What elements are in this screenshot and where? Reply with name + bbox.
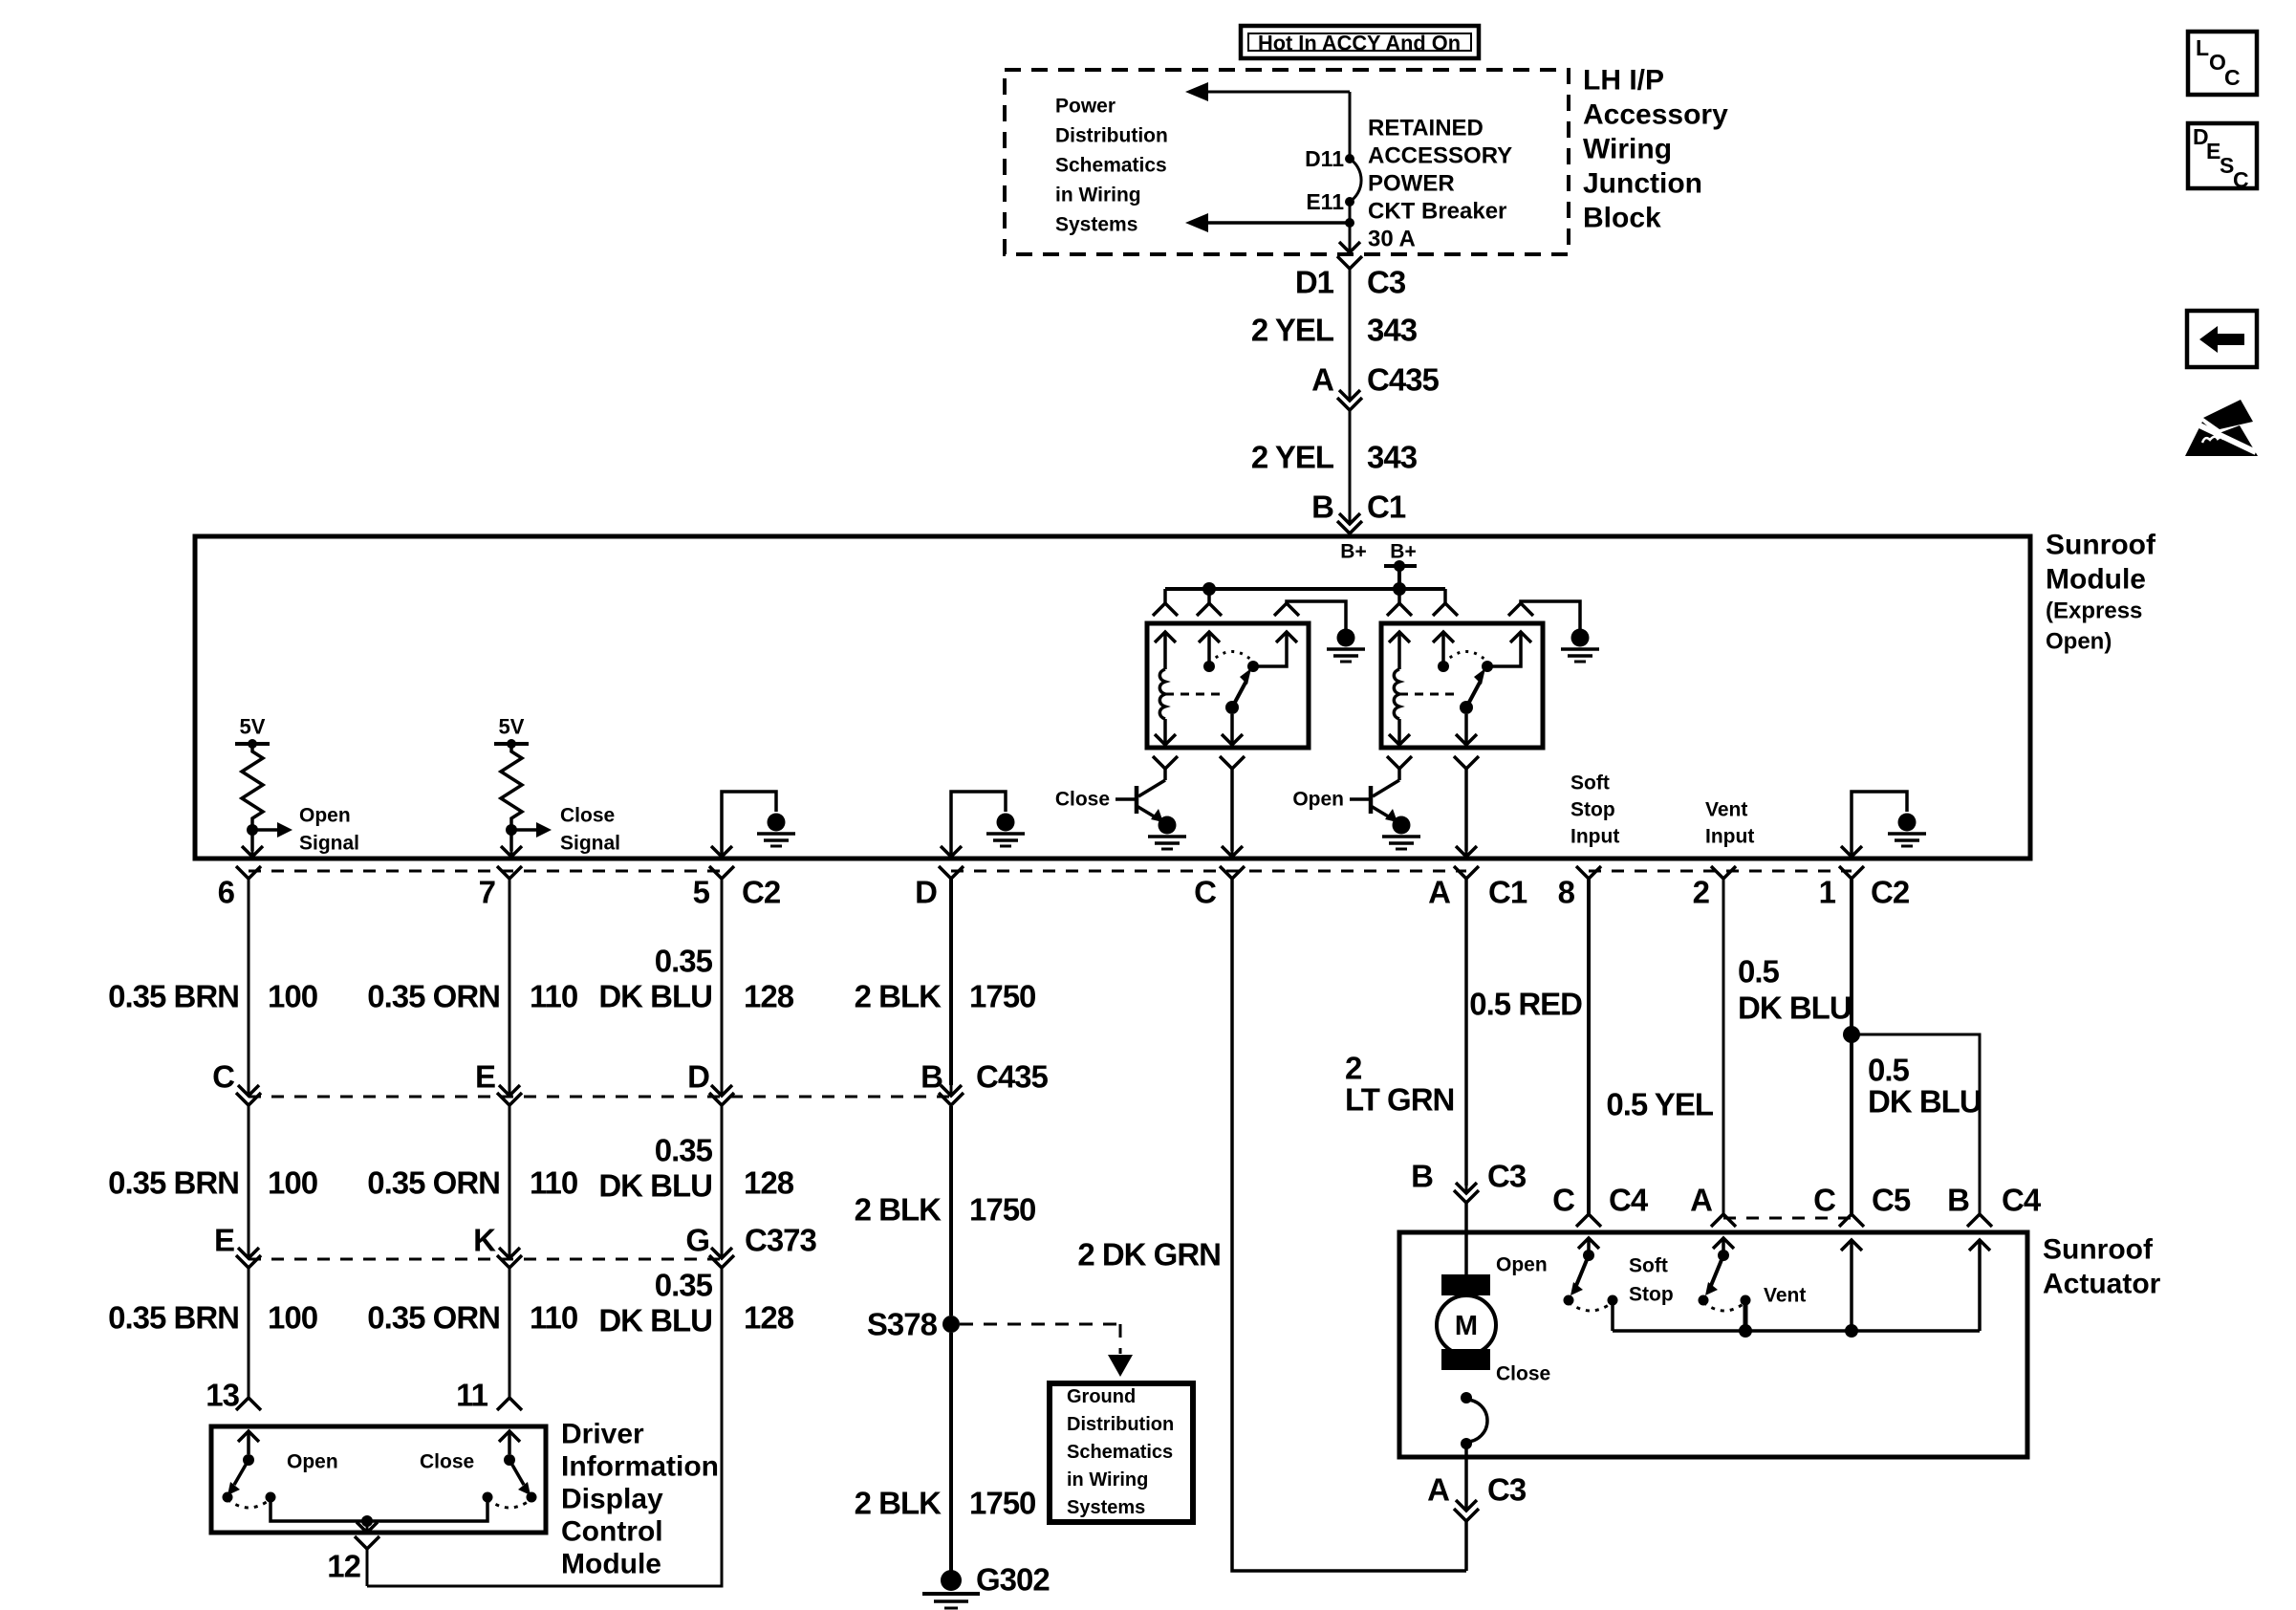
svg-text:Information: Information xyxy=(561,1451,719,1483)
svg-text:Close: Close xyxy=(1496,1363,1550,1385)
svg-text:110: 110 xyxy=(530,979,577,1014)
dashed arc: DID open xyxy=(227,1499,271,1508)
svg-text:C: C xyxy=(1194,875,1216,910)
svg-text:2 DK GRN: 2 DK GRN xyxy=(1077,1237,1221,1273)
dashed reference to ground distribution xyxy=(960,1323,1120,1326)
svg-text:Vent: Vent xyxy=(1705,799,1747,821)
power feed label box: Hot In ACCY And On xyxy=(1241,26,1479,58)
svg-text:M: M xyxy=(1455,1311,1478,1341)
svg-text:B+: B+ xyxy=(1390,541,1416,563)
svg-text:7: 7 xyxy=(479,875,495,910)
wire 2 LT GRN (pin A to C3) xyxy=(1464,879,1468,1186)
wire: DID switch common bus xyxy=(271,1497,487,1521)
wire: motor exit to pin A C3 xyxy=(1456,1500,1477,1511)
connector C1 pin B into Sunroof Module xyxy=(1339,513,1360,524)
svg-text:C4: C4 xyxy=(2002,1183,2042,1218)
svg-text:Ground: Ground xyxy=(1067,1386,1136,1407)
wire: C3 to sunroof actuator motor xyxy=(1464,1203,1468,1276)
svg-text:Input: Input xyxy=(1570,826,1619,848)
wire 100 0.35 BRN (seg 1) xyxy=(248,879,250,1085)
wire 1750 2 BLK (seg 3) xyxy=(949,1333,953,1573)
svg-text:Open: Open xyxy=(1292,789,1344,811)
svg-text:Wiring: Wiring xyxy=(1583,134,1672,165)
wire 0.5 RED (pin 8) xyxy=(1587,879,1591,1214)
svg-text:Schematics: Schematics xyxy=(1067,1442,1173,1463)
svg-text:128: 128 xyxy=(744,979,794,1014)
actuator pin C C4 xyxy=(1576,1214,1601,1227)
svg-text:Input: Input xyxy=(1705,826,1754,848)
svg-text:D: D xyxy=(915,875,937,910)
svg-text:Systems: Systems xyxy=(1055,214,1137,236)
ground: pin D loop xyxy=(997,814,1015,832)
resistor: 5V pull-up close signal xyxy=(494,715,620,858)
svg-text:C1: C1 xyxy=(1488,875,1527,910)
svg-text:5: 5 xyxy=(693,875,710,910)
svg-text:C3: C3 xyxy=(1487,1472,1527,1508)
contact dots: DID close xyxy=(483,1492,493,1503)
in-line connector C435 pin A xyxy=(1339,390,1360,401)
svg-text:Module: Module xyxy=(561,1549,661,1580)
wire 0.5 YEL (pin 2) xyxy=(1722,879,1725,1214)
svg-text:A: A xyxy=(1690,1183,1712,1218)
svg-text:D11: D11 xyxy=(1305,146,1344,171)
svg-text:11: 11 xyxy=(456,1378,488,1413)
svg-text:1: 1 xyxy=(1819,875,1836,910)
svg-text:E: E xyxy=(214,1223,234,1258)
DID pin 12 xyxy=(355,1536,379,1549)
connector dashed line C2 (pins 6,7,5) xyxy=(249,870,722,873)
wire: C5 riser xyxy=(1841,1240,1862,1251)
svg-text:B+: B+ xyxy=(1340,541,1366,563)
svg-text:Signal: Signal xyxy=(299,833,359,855)
svg-text:128: 128 xyxy=(744,1300,794,1336)
connector dashed line C2 (pins 8,2,1) xyxy=(1589,870,1852,873)
svg-text:DK BLU: DK BLU xyxy=(1868,1084,1982,1120)
svg-text:8: 8 xyxy=(1558,875,1575,910)
fork: K1 coil to Q1 collector xyxy=(1153,756,1178,769)
note box: Ground Distribution Schematics in Wiring Systems xyxy=(1050,1383,1193,1522)
svg-text:C1: C1 xyxy=(1367,490,1406,525)
svg-text:Signal: Signal xyxy=(560,833,620,855)
svg-text:Open: Open xyxy=(299,805,351,827)
svg-text:0.5 YEL: 0.5 YEL xyxy=(1606,1087,1713,1122)
svg-text:in Wiring: in Wiring xyxy=(1055,185,1141,207)
svg-text:A: A xyxy=(1311,362,1333,398)
svg-text:0.5 RED: 0.5 RED xyxy=(1469,987,1582,1022)
wire: feed to power distribution (upper arrow) xyxy=(1201,91,1350,94)
icon: back arrow box xyxy=(2187,311,2257,367)
terminal fork: relay K2 coil supply xyxy=(1397,589,1401,603)
svg-text:E11: E11 xyxy=(1306,189,1344,214)
in-line connector C435 pin D xyxy=(711,1085,732,1096)
svg-text:B: B xyxy=(1311,490,1333,525)
svg-text:110: 110 xyxy=(530,1165,577,1201)
svg-text:LT GRN: LT GRN xyxy=(1345,1082,1454,1118)
svg-text:C435: C435 xyxy=(976,1059,1049,1095)
contact dots: DID open xyxy=(223,1492,233,1503)
svg-text:G: G xyxy=(685,1223,709,1258)
icon: LOC box xyxy=(2188,32,2257,95)
svg-text:2 BLK: 2 BLK xyxy=(855,979,942,1014)
svg-text:0.35 ORN: 0.35 ORN xyxy=(367,979,500,1014)
svg-text:Close: Close xyxy=(1055,789,1110,811)
relay K2 (open) xyxy=(1381,623,1543,748)
svg-text:Control: Control xyxy=(561,1516,663,1548)
svg-text:Close: Close xyxy=(560,805,615,827)
terminal fork: relay K1 coil supply xyxy=(1163,589,1167,603)
svg-text:DK BLU: DK BLU xyxy=(598,1168,712,1204)
svg-text:DK BLU: DK BLU xyxy=(1738,990,1852,1026)
icon: ESD warning symbol xyxy=(2185,422,2258,456)
connector dashed line C1 (pins D,C,A) xyxy=(951,870,1466,873)
svg-text:C4: C4 xyxy=(1609,1183,1649,1218)
wire 110 0.35 ORN (seg 1) xyxy=(509,879,511,1085)
svg-text:Junction: Junction xyxy=(1583,168,1702,200)
svg-text:2: 2 xyxy=(1345,1051,1362,1086)
svg-text:D: D xyxy=(687,1059,709,1095)
wire 110 0.35 ORN (seg 2) xyxy=(509,1106,511,1248)
svg-text:Open): Open) xyxy=(2046,629,2112,655)
svg-text:0.35 BRN: 0.35 BRN xyxy=(108,1300,239,1336)
wire: actuator common bus xyxy=(1613,1329,1980,1333)
wire: B+ trunk to relay bus xyxy=(1397,566,1401,589)
svg-text:2 BLK: 2 BLK xyxy=(855,1192,942,1228)
svg-text:1750: 1750 xyxy=(969,1486,1035,1521)
transistor Q2 open driver xyxy=(1373,780,1399,796)
svg-text:Actuator: Actuator xyxy=(2043,1269,2161,1300)
wire: E11 down to junction xyxy=(1349,202,1352,223)
wire 128 0.35 DK BLU (seg 1) xyxy=(721,879,724,1085)
svg-text:Sunroof: Sunroof xyxy=(2043,1234,2154,1266)
svg-text:2 YEL: 2 YEL xyxy=(1251,313,1334,348)
svg-text:0.35 ORN: 0.35 ORN xyxy=(367,1165,500,1201)
svg-text:2: 2 xyxy=(1693,875,1710,910)
svg-text:L: L xyxy=(2196,35,2209,60)
svg-text:Schematics: Schematics xyxy=(1055,155,1167,177)
in-line connector C3 pin B xyxy=(1456,1183,1477,1193)
svg-text:DK BLU: DK BLU xyxy=(598,979,712,1014)
svg-text:Distribution: Distribution xyxy=(1067,1414,1174,1435)
svg-text:0.5: 0.5 xyxy=(1738,954,1780,990)
svg-text:A: A xyxy=(1428,875,1450,910)
svg-text:Hot In ACCY And On: Hot In ACCY And On xyxy=(1258,32,1461,55)
svg-text:Open: Open xyxy=(1496,1254,1548,1276)
wire: vertical trunk from feed xyxy=(1349,92,1352,159)
svg-text:12: 12 xyxy=(327,1549,360,1584)
switch: soft stop xyxy=(1564,1238,1618,1311)
svg-text:B: B xyxy=(1411,1159,1433,1194)
wire: pin D internal ground loop xyxy=(951,792,1006,854)
wire: B C4 riser xyxy=(1969,1240,1990,1251)
resistor: 5V pull-up open signal xyxy=(235,715,359,858)
svg-text:Systems: Systems xyxy=(1067,1497,1145,1518)
wire 2 DK GRN pin C to actuator xyxy=(1232,879,1466,1571)
svg-text:0.35: 0.35 xyxy=(655,1133,713,1168)
svg-text:ACCESSORY: ACCESSORY xyxy=(1368,143,1512,169)
svg-text:1750: 1750 xyxy=(969,979,1035,1014)
svg-text:C: C xyxy=(2233,167,2249,192)
svg-text:1750: 1750 xyxy=(969,1192,1035,1228)
connector dashed line C5 (pins A,C) xyxy=(1723,1217,1852,1220)
dashed arc: DID close xyxy=(487,1499,531,1508)
splice node on DK BLU xyxy=(1843,1026,1860,1043)
svg-text:Distribution: Distribution xyxy=(1055,125,1168,147)
svg-text:C3: C3 xyxy=(1367,265,1406,300)
svg-text:0.35 BRN: 0.35 BRN xyxy=(108,979,239,1014)
svg-text:C: C xyxy=(2224,65,2241,90)
pin 1 C2 xyxy=(1839,866,1864,879)
svg-text:C373: C373 xyxy=(745,1223,817,1258)
in-line connector C373 pin K xyxy=(499,1248,520,1258)
svg-text:Close: Close xyxy=(420,1451,474,1473)
svg-text:Accessory: Accessory xyxy=(1583,99,1728,131)
svg-text:C2: C2 xyxy=(742,875,781,910)
terminal fork: relay K1 common supply xyxy=(1207,589,1211,603)
wire: trunk exits junction block xyxy=(1349,223,1352,245)
svg-text:13: 13 xyxy=(206,1378,239,1413)
wire 1750 2 BLK (seg 2) xyxy=(949,1106,953,1316)
svg-text:0.35 ORN: 0.35 ORN xyxy=(367,1300,500,1336)
splice S378 xyxy=(942,1316,960,1333)
svg-text:C: C xyxy=(212,1059,234,1095)
svg-text:343: 343 xyxy=(1367,313,1418,348)
svg-text:A: A xyxy=(1427,1472,1449,1508)
wire 343 2 YEL (lower) xyxy=(1349,410,1352,516)
pin 5 C2 xyxy=(709,866,734,879)
DID pin 11 xyxy=(497,1398,522,1410)
svg-text:Block: Block xyxy=(1583,203,1661,234)
in-line connector C373 pin G xyxy=(711,1248,732,1258)
svg-text:C: C xyxy=(1552,1183,1574,1218)
relay K1 (close) xyxy=(1147,623,1309,748)
ground: Q2 emitter xyxy=(1393,816,1411,835)
wire 128 0.35 DK BLU (seg 3) xyxy=(367,1269,722,1586)
svg-text:Stop: Stop xyxy=(1570,799,1615,821)
pin D xyxy=(939,866,964,879)
LH I/P Accessory Wiring Junction Block (dashed box) xyxy=(1005,70,1569,254)
svg-text:RETAINED: RETAINED xyxy=(1368,116,1484,141)
svg-text:100: 100 xyxy=(268,1300,317,1336)
wire 1750 2 BLK (seg 1) xyxy=(949,879,953,1085)
ground: Q1 emitter xyxy=(1159,816,1177,835)
icon: DESC box xyxy=(2188,123,2257,188)
svg-text:B: B xyxy=(921,1059,942,1095)
svg-text:0.5: 0.5 xyxy=(1868,1053,1910,1088)
wire: relay K2 NC contact to ground xyxy=(1508,603,1533,616)
connector C3 pin D1 (fork below junction block) xyxy=(1337,256,1362,269)
wire: relay K1 NC contact to ground xyxy=(1274,603,1299,616)
svg-text:Stop: Stop xyxy=(1629,1284,1674,1306)
svg-text:100: 100 xyxy=(268,1165,317,1201)
Sunroof Module box xyxy=(195,536,2030,859)
actuator pin B C4 xyxy=(1967,1214,1992,1227)
switch: vent xyxy=(1699,1238,1751,1311)
Driver Information Display Control Module box xyxy=(211,1426,546,1533)
wire 0.5 DK BLU branch xyxy=(1852,1034,1980,1214)
switch: DID open xyxy=(227,1431,259,1495)
switch: motor close contact xyxy=(1461,1392,1472,1403)
wire 110 0.35 ORN (seg 3) xyxy=(509,1269,511,1398)
svg-text:LH I/P: LH I/P xyxy=(1583,65,1664,97)
svg-text:CKT Breaker: CKT Breaker xyxy=(1368,199,1506,225)
svg-text:Driver: Driver xyxy=(561,1419,644,1450)
pin 2 xyxy=(1711,866,1736,879)
in-line connector C435 pin E xyxy=(499,1085,520,1096)
in-line connector C373 pin E xyxy=(238,1248,259,1258)
wire 0.5 DK BLU (pin 1) xyxy=(1850,879,1853,1214)
svg-text:in Wiring: in Wiring xyxy=(1067,1469,1148,1490)
svg-text:D1: D1 xyxy=(1295,265,1334,300)
svg-text:128: 128 xyxy=(744,1165,794,1201)
svg-text:Vent: Vent xyxy=(1764,1285,1806,1307)
wire: K2 common to pin A xyxy=(1454,756,1479,769)
svg-text:C5: C5 xyxy=(1872,1183,1911,1218)
terminal D11 xyxy=(1345,154,1354,163)
svg-text:DK BLU: DK BLU xyxy=(598,1303,712,1338)
svg-text:E: E xyxy=(475,1059,495,1095)
switch: DID close xyxy=(499,1431,531,1495)
terminal E11 xyxy=(1345,197,1354,207)
in-line connector C435 pin C xyxy=(238,1085,259,1096)
ground G302 xyxy=(941,1570,962,1591)
ground: relay K1 NC xyxy=(1337,629,1355,647)
svg-text:2 BLK: 2 BLK xyxy=(855,1486,942,1521)
pin 6 xyxy=(236,866,261,879)
pin 8 xyxy=(1576,866,1601,879)
svg-text:POWER: POWER xyxy=(1368,171,1455,197)
svg-text:K: K xyxy=(473,1223,496,1258)
svg-text:110: 110 xyxy=(530,1300,577,1336)
svg-text:B: B xyxy=(1947,1183,1969,1218)
in-line connector C435 pin B xyxy=(941,1085,962,1096)
wire 100 0.35 BRN (seg 3) xyxy=(248,1269,250,1398)
pin 7 xyxy=(497,866,522,879)
wire: feed to power distribution (lower arrow) xyxy=(1201,221,1350,225)
wire: DID pin 12 exit xyxy=(365,1521,369,1526)
svg-text:6: 6 xyxy=(218,875,235,910)
connector C3 pin A (below actuator) xyxy=(1454,1509,1479,1521)
svg-text:S378: S378 xyxy=(867,1307,938,1342)
svg-text:Power: Power xyxy=(1055,96,1116,118)
wire: K1 common to pin C xyxy=(1220,756,1245,769)
actuator pin C C5 xyxy=(1839,1214,1864,1227)
ground: pin 5 loop xyxy=(768,814,786,832)
svg-text:Soft: Soft xyxy=(1570,772,1610,794)
svg-text:(Express: (Express xyxy=(2046,598,2142,624)
DID pin 13 xyxy=(236,1398,261,1410)
wire 100 0.35 BRN (seg 2) xyxy=(248,1106,250,1248)
circuit breaker: RETAINED ACCESSORY POWER CKT Breaker 30 A xyxy=(1350,159,1361,202)
wire: pin 1 internal ground loop xyxy=(1852,792,1907,854)
wire 343 2 YEL (upper) xyxy=(1349,269,1352,393)
svg-text:0.35 BRN: 0.35 BRN xyxy=(108,1165,239,1201)
wire 128 0.35 DK BLU (seg 2) xyxy=(721,1106,724,1248)
actuator pin A xyxy=(1711,1214,1736,1227)
ground: relay K2 NC xyxy=(1571,629,1590,647)
svg-text:343: 343 xyxy=(1367,440,1418,475)
svg-text:C2: C2 xyxy=(1871,875,1910,910)
svg-text:0.35: 0.35 xyxy=(655,1268,713,1303)
connector dashed line C373 row xyxy=(249,1258,722,1261)
svg-text:30 A: 30 A xyxy=(1368,227,1416,252)
svg-text:Soft: Soft xyxy=(1629,1255,1668,1277)
svg-text:C: C xyxy=(1813,1183,1835,1218)
ground: pin 1 loop xyxy=(1898,814,1917,832)
Sunroof Actuator box xyxy=(1399,1232,2027,1457)
wire: pin 5 internal ground loop xyxy=(722,792,776,854)
svg-text:G302: G302 xyxy=(976,1562,1050,1598)
fork: K2 coil to Q2 collector xyxy=(1387,756,1412,769)
wire: relay supply bus xyxy=(1165,587,1445,591)
svg-text:0.35: 0.35 xyxy=(655,944,713,979)
connector dashed line C435 row xyxy=(249,1096,951,1099)
svg-text:Sunroof: Sunroof xyxy=(2046,530,2156,561)
motor M sunroof xyxy=(1441,1274,1490,1295)
svg-text:Open: Open xyxy=(287,1451,338,1473)
svg-text:5V: 5V xyxy=(240,715,266,739)
svg-text:100: 100 xyxy=(268,979,317,1014)
svg-text:Module: Module xyxy=(2046,564,2146,596)
terminal fork: relay K2 common supply xyxy=(1443,589,1447,603)
svg-text:Display: Display xyxy=(561,1484,663,1515)
B+ supply bar xyxy=(1384,564,1417,568)
svg-text:2 YEL: 2 YEL xyxy=(1251,440,1334,475)
svg-text:C3: C3 xyxy=(1487,1159,1527,1194)
svg-text:5V: 5V xyxy=(499,715,525,739)
node: junction to lower arrow xyxy=(1345,218,1354,228)
transistor Q1 close driver xyxy=(1138,780,1165,796)
pin A C1 xyxy=(1454,866,1479,879)
svg-text:C435: C435 xyxy=(1367,362,1440,398)
pin C xyxy=(1220,866,1245,879)
